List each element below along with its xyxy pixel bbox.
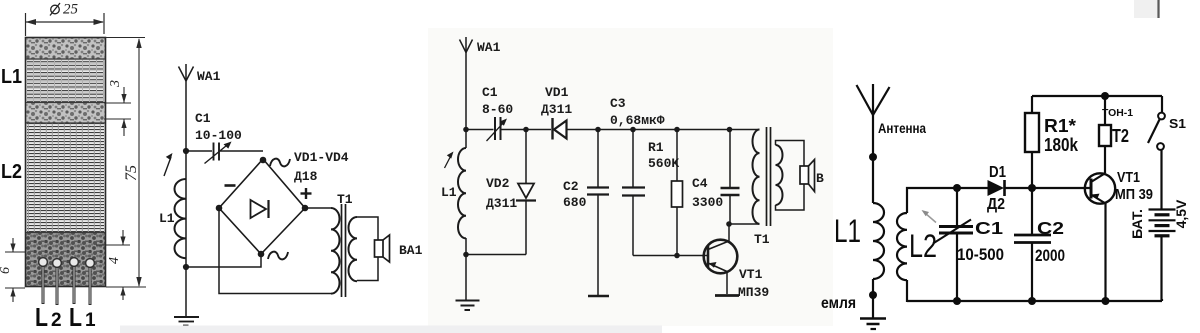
AC squiggle top (270, 159, 290, 167)
battery БАТ. 4,5V (1160, 150, 1162, 209)
svg-text:C3: C3 (610, 96, 626, 111)
transformer T1 primary (753, 130, 760, 224)
svg-text:T1: T1 (337, 192, 353, 207)
node base / R1 / C2 (1028, 184, 1036, 192)
svg-text:L: L (69, 302, 82, 332)
capacitor C4 3300 (729, 130, 731, 188)
svg-text:8-60: 8-60 (482, 102, 513, 117)
capacitor C2 680 (597, 130, 599, 188)
svg-text:L1: L1 (834, 213, 861, 249)
scrollbar artifact top right (1134, 0, 1160, 18)
base wire (633, 255, 707, 257)
diode bridge VD1-VD4 Д18 (diamond) (219, 159, 305, 254)
svg-text:180k: 180k (1044, 135, 1079, 155)
svg-text:560K: 560K (648, 156, 679, 171)
dimension 6 (left side bottom) (5, 238, 25, 302)
capacitor C1 10-100 (variable) (213, 143, 215, 161)
svg-text:25: 25 (63, 2, 79, 18)
svg-text:3: 3 (108, 80, 123, 88)
switch S1 (1161, 96, 1163, 113)
svg-text:T1: T1 (754, 232, 770, 247)
svg-text:3300: 3300 (692, 195, 723, 210)
svg-text:VT1: VT1 (1117, 170, 1140, 186)
capacitor C1 8-60 (variable) (494, 117, 496, 140)
inductor L2 (tank coil) (897, 213, 907, 280)
diode D1 Д2 (957, 187, 988, 189)
svg-text:10-100: 10-100 (195, 128, 242, 143)
svg-text:L1: L1 (159, 211, 175, 226)
transformer T1 secondary (349, 217, 358, 281)
svg-text:VD1: VD1 (545, 85, 569, 100)
wire diode to base node (1005, 187, 1090, 189)
node junction antenna / C1 (183, 148, 189, 154)
capacitor C3 0,68мкФ (coupling to base) (632, 130, 634, 188)
svg-text:VD1-VD4: VD1-VD4 (294, 150, 349, 165)
svg-text:D1: D1 (989, 164, 1006, 181)
dimension 3 (right side) (104, 87, 131, 136)
top rail (1032, 95, 1162, 97)
svg-text:Д311: Д311 (541, 102, 572, 117)
wire antenna down (872, 115, 874, 203)
ground (circuit 3) (456, 300, 480, 302)
node junction L1 bottom / VD2 return (463, 252, 469, 258)
svg-text:VD2: VD2 (486, 176, 510, 191)
svg-text:WA1: WA1 (197, 69, 221, 84)
transistor VT1 МП39 (704, 240, 738, 274)
svg-text:4,5V: 4,5V (1173, 199, 1189, 228)
winding L2 on rod (27, 123, 104, 233)
svg-text:2000: 2000 (1035, 246, 1065, 265)
svg-text:75: 75 (123, 165, 140, 181)
inductor L1 (tuned, with arrow) (175, 179, 187, 258)
svg-text:R1*: R1* (1044, 116, 1076, 136)
svg-text:МП 39: МП 39 (1115, 187, 1153, 203)
node tank top (953, 184, 961, 192)
svg-text:10-500: 10-500 (957, 245, 1004, 264)
faint scan-page tint behind middle schematic (428, 28, 833, 326)
wire bottom corner to L1 wire (186, 254, 261, 267)
antenna WA1 (179, 64, 194, 81)
svg-text:Д2: Д2 (987, 196, 1005, 213)
light gray band bottom edge (120, 326, 662, 333)
ground (земля) (860, 317, 886, 320)
diode VD1 Д311 (series, pointing left) (551, 118, 553, 140)
band boundary lines on rod (26, 59, 105, 233)
svg-text:C2: C2 (563, 179, 579, 194)
pin 4 of coil former (86, 259, 95, 268)
node antenna terminal (869, 153, 877, 161)
top rail wire (466, 129, 494, 131)
tank circuit loop wires (907, 188, 957, 213)
transistor VT1 МП 39 (1085, 173, 1115, 203)
node junction collector / C4 / T1 primary (726, 221, 732, 227)
svg-text:Антенна: Антенна (878, 121, 926, 136)
svg-text:6: 6 (0, 267, 13, 274)
wire antenna down to ground (465, 52, 467, 148)
speaker BA1 (375, 240, 384, 257)
svg-text:2: 2 (51, 310, 62, 331)
diode VD2 Д311 (shunt, pointing down) (525, 130, 527, 184)
transformer T1 primary (331, 208, 340, 294)
AC squiggle bottom (268, 252, 288, 260)
svg-text:Д311: Д311 (486, 196, 517, 211)
svg-text:S1: S1 (1169, 117, 1186, 131)
svg-text:Д18: Д18 (294, 169, 318, 184)
resistor R1* 180k (1031, 96, 1033, 113)
svg-text:МП39: МП39 (738, 285, 769, 300)
node tank bottom (953, 297, 961, 305)
plus sign at right corner (301, 192, 312, 194)
svg-text:4: 4 (107, 257, 122, 264)
winding L1 on rod (27, 59, 104, 103)
svg-text:ТОН-1: ТОН-1 (1102, 107, 1133, 119)
dimension ⌀25 (top of coil former drawing) (26, 13, 105, 36)
node junction L1 bottom / bridge return (183, 264, 189, 270)
svg-text:1: 1 (85, 310, 96, 331)
transformer T1 core (766, 127, 768, 226)
svg-text:T2: T2 (1112, 126, 1129, 146)
resistor R1 560K (676, 130, 678, 182)
dimension 4 (right side bottom) (96, 230, 130, 300)
svg-text:L2: L2 (909, 228, 937, 264)
minus sign at left corner (225, 184, 236, 187)
svg-text:L2: L2 (1, 161, 22, 183)
svg-text:VT1: VT1 (739, 267, 763, 282)
node C2 bottom (1028, 297, 1036, 305)
svg-text:0,68мкФ: 0,68мкФ (610, 113, 665, 128)
pin 1 of coil former (39, 258, 48, 267)
wire junction to T1 primary bottom (729, 223, 760, 225)
svg-text:C4: C4 (692, 176, 708, 191)
svg-text:С1: С1 (975, 218, 1003, 238)
svg-text:R1: R1 (648, 140, 664, 155)
node ground terminal (869, 291, 877, 299)
capacitor C2 2000 (1031, 188, 1033, 234)
svg-text:C1: C1 (482, 85, 498, 100)
ground (circuit 2) (174, 316, 199, 318)
gap band between windings (26, 103, 105, 123)
svg-text:WA1: WA1 (477, 40, 501, 55)
node emitter bottom (1102, 297, 1110, 305)
antenna (Антенна) (857, 84, 890, 115)
wire - corner down and right to T1 primary bottom (219, 208, 331, 294)
transformer T1 secondary (776, 145, 783, 205)
bottom band of rod with pin sockets (26, 233, 105, 287)
bottom rail (907, 300, 1162, 302)
inductor L1 (antenna coil) (873, 203, 884, 279)
wire C1 branch (186, 150, 212, 152)
svg-text:L1: L1 (1, 66, 22, 88)
wire antenna down to ground (185, 81, 187, 317)
svg-text:L: L (35, 302, 48, 332)
svg-text:В: В (816, 171, 824, 186)
pin 2 of coil former (53, 259, 62, 268)
svg-text:L1: L1 (441, 185, 457, 200)
antenna WA1 (460, 37, 473, 53)
pin 3 of coil former (70, 258, 79, 267)
wire VD2 bottom to L1 bottom (466, 254, 526, 256)
wire + corner to T1 primary (305, 207, 331, 209)
inductor L1 (tuned) (458, 148, 466, 238)
speaker В (800, 166, 809, 184)
svg-text:емля: емля (821, 295, 856, 312)
dimension 75 (right side) (106, 38, 146, 288)
node junctions on rail (463, 127, 469, 133)
wire secondary to speaker (776, 141, 805, 167)
diode symbol inside bridge (251, 200, 267, 218)
capacitor C1 10-500 (variable tuning) (939, 225, 973, 228)
wire secondary to speaker (357, 217, 378, 240)
transformer T1 core (341, 204, 343, 297)
svg-text:680: 680 (563, 195, 587, 210)
svg-text:BA1: BA1 (399, 243, 423, 258)
svg-text:БАТ.: БАТ. (1129, 209, 1145, 239)
svg-text:C2: C2 (1037, 218, 1064, 238)
headphone T2 ТОН-1 (1104, 96, 1106, 125)
ferrite rod / coil former body (26, 38, 106, 287)
svg-text:C1: C1 (195, 111, 211, 126)
